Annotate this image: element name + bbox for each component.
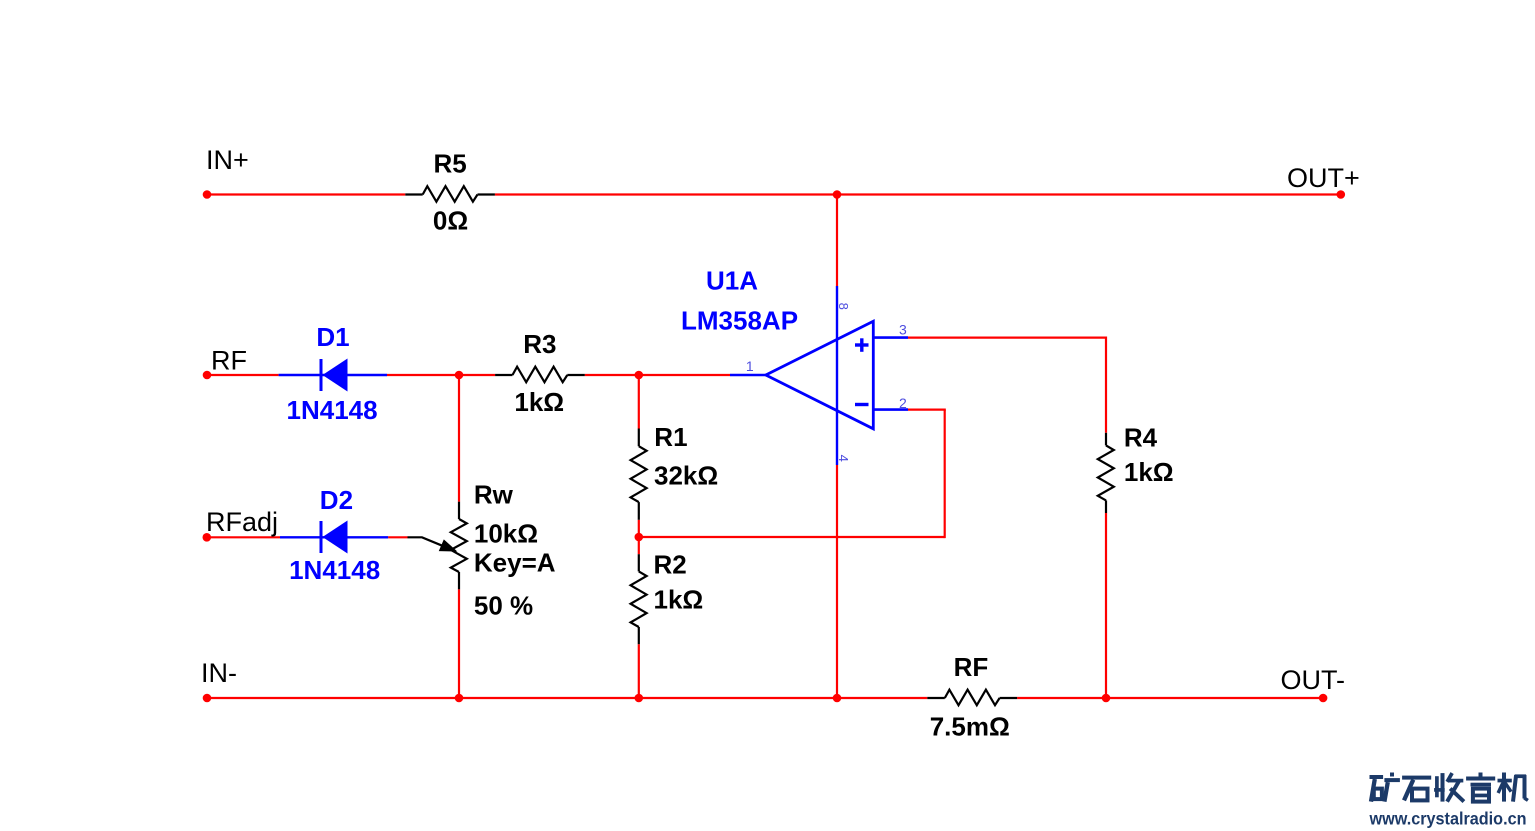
svg-text:R1: R1: [654, 422, 687, 452]
svg-text:LM358AP: LM358AP: [681, 305, 798, 335]
svg-text:OUT+: OUT+: [1287, 163, 1360, 193]
svg-text:RFadj: RFadj: [206, 507, 278, 537]
svg-text:0Ω: 0Ω: [433, 205, 468, 235]
svg-text:1N4148: 1N4148: [289, 555, 380, 585]
svg-text:3: 3: [899, 322, 907, 338]
svg-text:32kΩ: 32kΩ: [654, 461, 718, 491]
svg-text:IN+: IN+: [206, 145, 249, 175]
svg-text:2: 2: [899, 395, 907, 411]
svg-text:R2: R2: [654, 550, 687, 580]
svg-text:10kΩ: 10kΩ: [474, 518, 538, 548]
svg-text:www.crystalradio.cn: www.crystalradio.cn: [1369, 809, 1527, 829]
svg-text:1kΩ: 1kΩ: [1124, 457, 1174, 487]
svg-text:1: 1: [746, 358, 754, 374]
svg-text:IN-: IN-: [201, 658, 237, 688]
svg-text:D1: D1: [316, 322, 349, 352]
svg-text:50 %: 50 %: [474, 591, 533, 621]
svg-text:8: 8: [836, 303, 851, 310]
svg-text:7.5mΩ: 7.5mΩ: [930, 712, 1010, 742]
svg-text:OUT-: OUT-: [1281, 665, 1346, 695]
svg-text:1kΩ: 1kΩ: [514, 387, 564, 417]
svg-text:D2: D2: [320, 485, 353, 515]
svg-text:R3: R3: [523, 329, 556, 359]
svg-text:R4: R4: [1124, 423, 1158, 453]
svg-text:RF: RF: [211, 346, 247, 376]
svg-text:Rw: Rw: [474, 480, 514, 510]
svg-text:R5: R5: [434, 148, 467, 178]
svg-text:RF: RF: [954, 652, 989, 682]
svg-text:U1A: U1A: [706, 266, 758, 296]
svg-text:1N4148: 1N4148: [287, 395, 378, 425]
svg-text:4: 4: [836, 455, 851, 462]
svg-text:Key=A: Key=A: [474, 548, 556, 578]
svg-text:1kΩ: 1kΩ: [654, 585, 704, 615]
